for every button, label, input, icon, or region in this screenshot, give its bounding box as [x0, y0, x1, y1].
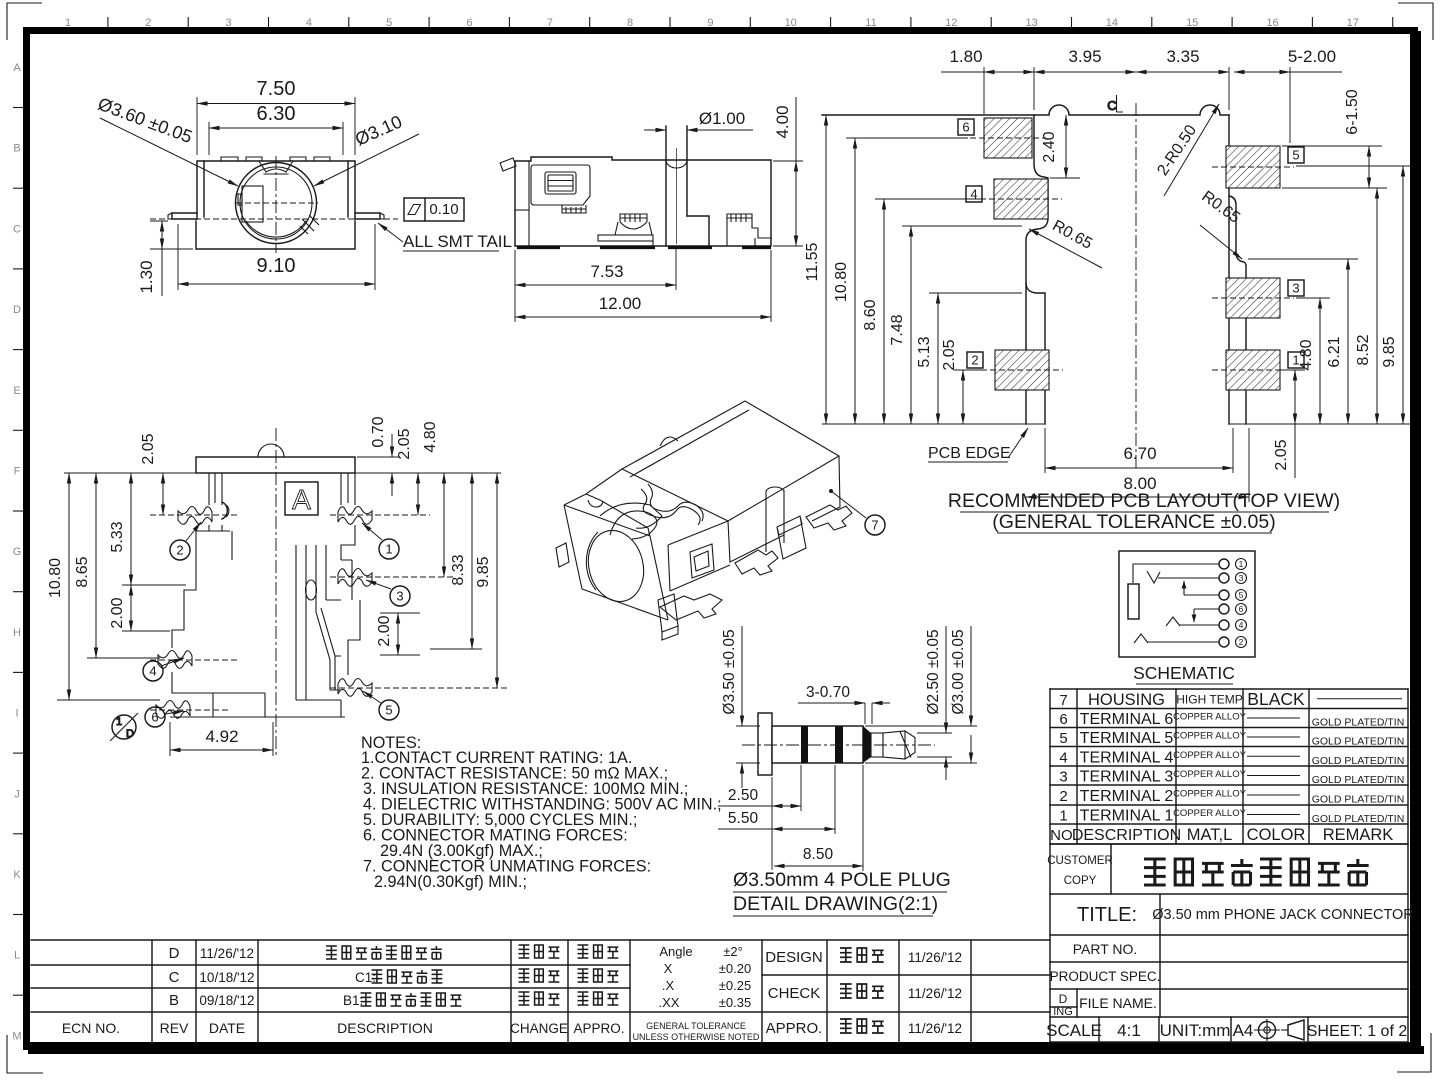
svg-text:5: 5 [1059, 730, 1067, 747]
dim 2.05 sec left [140, 433, 163, 515]
svg-text:5: 5 [385, 703, 392, 718]
section left profile [170, 473, 282, 717]
dim dia 3.50 plug [721, 626, 760, 788]
svg-text:2.94N(0.30Kgf) MIN.;: 2.94N(0.30Kgf) MIN.; [374, 873, 527, 891]
callout 6 [145, 707, 184, 727]
front view inner details [238, 186, 319, 234]
pcb layout top edge [822, 105, 1229, 115]
svg-text:11/26/'12: 11/26/'12 [908, 1021, 962, 1036]
svg-text:A: A [13, 62, 21, 74]
dim 6.30 [209, 103, 343, 155]
dim 4.80 sec [422, 421, 444, 577]
svg-text:1.80: 1.80 [949, 47, 982, 66]
plug flange [758, 713, 863, 775]
svg-text:8.65: 8.65 [74, 556, 91, 587]
svg-text:1.30: 1.30 [137, 260, 156, 293]
ruler ticks left [13, 108, 23, 996]
svg-text:X: X [664, 961, 673, 976]
dim 2.40 [1041, 115, 1080, 178]
svg-text:SHEET: 1 of 2: SHEET: 1 of 2 [1307, 1023, 1408, 1040]
dim 8.65 sec [74, 473, 160, 658]
dim 6.70 [1045, 428, 1233, 473]
svg-text:9.85: 9.85 [1381, 336, 1398, 367]
svg-text:09/18/'12: 09/18/'12 [199, 993, 254, 1008]
svg-text:DETAIL DRAWING(2:1): DETAIL DRAWING(2:1) [733, 893, 938, 915]
svg-text:±0.25: ±0.25 [719, 978, 751, 993]
plug caption [733, 869, 951, 916]
plug tip [871, 731, 915, 759]
parts table grid [1050, 689, 1408, 844]
svg-text:6.70: 6.70 [1123, 444, 1156, 463]
svg-text:ECN NO.: ECN NO. [62, 1020, 120, 1036]
svg-text:SCALE: SCALE [1046, 1021, 1102, 1040]
dim 8.33 sec [430, 473, 482, 649]
svg-text:8.33: 8.33 [450, 554, 467, 585]
svg-text:5.50: 5.50 [728, 810, 759, 827]
section ref line [64, 472, 196, 474]
svg-text:6: 6 [1239, 604, 1244, 614]
svg-text:DESCRIPTION: DESCRIPTION [337, 1020, 433, 1036]
svg-text:±0.20: ±0.20 [719, 961, 751, 976]
svg-text:Ø1.00: Ø1.00 [699, 109, 745, 128]
svg-text:3.95: 3.95 [1068, 47, 1101, 66]
svg-text:D: D [126, 728, 134, 740]
front view circles [236, 163, 317, 244]
label ALL SMT TAIL [378, 223, 512, 251]
3d view top face [622, 401, 839, 525]
dim 2.05 sec [396, 428, 418, 515]
svg-text:B: B [169, 992, 179, 1009]
svg-text:Ø2.50 ±0.05: Ø2.50 ±0.05 [925, 629, 942, 714]
svg-text:A: A [292, 484, 311, 515]
svg-text:COLOR: COLOR [1247, 826, 1306, 844]
dim 4.92 [170, 722, 273, 756]
svg-text:9.85: 9.85 [475, 556, 492, 587]
dim 2.00 sec right [376, 613, 420, 655]
pad 1 [1212, 350, 1304, 390]
section mark 1/D [110, 713, 138, 741]
svg-text:7: 7 [1059, 692, 1067, 709]
svg-text:3: 3 [1059, 769, 1067, 786]
svg-text:1: 1 [1239, 559, 1244, 569]
side view body [500, 157, 771, 246]
callout 7 [829, 489, 885, 535]
svg-text:COPPER ALLOY: COPPER ALLOY [1173, 731, 1247, 742]
terminal 6 spring [156, 701, 190, 719]
svg-text:C: C [13, 223, 21, 235]
terminal 5 spring [338, 679, 372, 697]
tolerance block [633, 944, 760, 1042]
callout 2 [170, 522, 201, 560]
svg-text:GOLD PLATED/TIN: GOLD PLATED/TIN [1312, 774, 1405, 786]
pad 4 [966, 179, 1062, 219]
svg-text:PCB EDGE: PCB EDGE [928, 445, 1011, 462]
svg-text:C: C [1107, 98, 1116, 113]
svg-text:B1:: B1: [343, 993, 363, 1008]
svg-text:2.00: 2.00 [109, 597, 126, 628]
dim dia 3.00 plug [865, 626, 977, 763]
dim 9.85 sec [475, 473, 497, 688]
leader dia 3.10 [314, 111, 419, 186]
ruler numbers top [65, 17, 1359, 29]
svg-text:3-0.70: 3-0.70 [806, 684, 850, 701]
svg-text:10.80: 10.80 [833, 262, 850, 302]
svg-text:6: 6 [151, 710, 158, 725]
svg-text:ING: ING [1053, 1006, 1073, 1018]
dim 7.48 [889, 226, 1022, 424]
dim 0.70 sec [357, 416, 400, 496]
svg-text:K: K [13, 869, 21, 881]
side view right terminal [727, 214, 772, 246]
svg-text:.XX: .XX [659, 995, 680, 1010]
svg-text:COPPER ALLOY: COPPER ALLOY [1173, 808, 1247, 819]
svg-text:7: 7 [871, 518, 878, 533]
svg-text:COPY: COPY [1064, 875, 1097, 887]
dim 12.00 [515, 250, 771, 322]
svg-text:Ø3.00 ±0.05: Ø3.00 ±0.05 [950, 629, 967, 714]
leader 2-R0.50 [1154, 104, 1219, 196]
section view top plate [196, 444, 355, 473]
dim 2.50 plug [718, 765, 801, 870]
svg-text:2: 2 [176, 543, 183, 558]
svg-text:D: D [1059, 992, 1068, 1006]
revision rows [62, 945, 625, 1036]
svg-text:G: G [13, 546, 22, 558]
svg-text:REMARK: REMARK [1323, 826, 1394, 844]
svg-text:6.21: 6.21 [1326, 336, 1343, 367]
svg-text:6: 6 [1059, 711, 1067, 728]
leader R0.65 left [1029, 217, 1102, 268]
svg-text:DESCRIPTION: DESCRIPTION [1072, 827, 1181, 844]
dim 8.60 [862, 199, 980, 424]
svg-text:M: M [12, 1030, 21, 1042]
pcb centerline [1135, 103, 1137, 470]
svg-text:H: H [13, 627, 21, 639]
svg-text:F: F [14, 466, 21, 478]
svg-text:FILE NAME.: FILE NAME. [1079, 995, 1157, 1011]
svg-text:3: 3 [396, 589, 403, 604]
svg-text:±0.35: ±0.35 [719, 995, 751, 1010]
svg-text:8.50: 8.50 [803, 846, 834, 863]
terminal 4 spring [158, 651, 192, 669]
ruler letters left [12, 62, 21, 1042]
svg-text:L: L [14, 950, 20, 962]
front view body outline [168, 157, 384, 249]
svg-text:11/26/'12: 11/26/'12 [200, 946, 254, 961]
svg-text:7.48: 7.48 [889, 314, 906, 345]
svg-text:5-2.00: 5-2.00 [1288, 47, 1336, 66]
section centerline [275, 428, 277, 758]
dim 5.33 sec [109, 473, 186, 585]
svg-text:6.30: 6.30 [257, 103, 296, 125]
svg-text:TITLE:: TITLE: [1077, 904, 1137, 926]
svg-text:A4: A4 [1233, 1021, 1254, 1040]
svg-text:6-1.50: 6-1.50 [1344, 89, 1361, 134]
svg-text:4: 4 [1239, 620, 1244, 630]
dim 9.10 [178, 224, 375, 290]
svg-text:4.80: 4.80 [422, 421, 439, 452]
plug centerline [742, 744, 935, 746]
side view mid terminal [598, 214, 653, 246]
svg-text:GOLD PLATED/TIN: GOLD PLATED/TIN [1312, 736, 1405, 748]
dim 8.50 plug [774, 765, 863, 871]
svg-text:11.55: 11.55 [804, 242, 821, 281]
svg-text:3: 3 [1292, 281, 1299, 296]
approval block [765, 948, 962, 1037]
dim 3-0.70 [798, 684, 890, 724]
pad 6 [958, 118, 1046, 158]
3d view right face [728, 456, 840, 562]
svg-text:2: 2 [1059, 788, 1067, 805]
pad 5 [1212, 146, 1304, 188]
svg-text:0.10: 0.10 [429, 201, 458, 218]
svg-text:UNLESS OTHERWISE NOTED: UNLESS OTHERWISE NOTED [633, 1032, 760, 1042]
schematic wires [1133, 564, 1219, 643]
svg-text:2.05: 2.05 [140, 433, 157, 464]
svg-text:B: B [13, 143, 20, 155]
svg-text:2: 2 [1239, 637, 1244, 647]
revision table grid [31, 940, 1050, 1042]
callout 4 [143, 658, 184, 681]
dim 5.50 plug [718, 765, 835, 834]
svg-text:HIGH TEMP: HIGH TEMP [1176, 692, 1242, 706]
callout 1 [362, 523, 399, 559]
svg-text:11/26/'12: 11/26/'12 [908, 950, 962, 965]
front view centerlines [236, 202, 318, 204]
svg-text:5.33: 5.33 [109, 521, 126, 552]
svg-text:CUSTOMER: CUSTOMER [1047, 855, 1113, 867]
svg-text:TERMINAL 2: TERMINAL 2 [1080, 788, 1174, 805]
svg-text:C: C [169, 969, 180, 986]
svg-text:7.50: 7.50 [257, 78, 296, 100]
svg-text:(GENERAL TOLERANCE ±0.05): (GENERAL TOLERANCE ±0.05) [992, 511, 1275, 533]
pad 3 [1212, 278, 1304, 318]
svg-text:0.70: 0.70 [370, 416, 387, 447]
svg-text:BLACK: BLACK [1247, 689, 1305, 709]
svg-text:10.80: 10.80 [47, 558, 64, 598]
dim dia 1.00 [644, 109, 753, 130]
dim 2.05 right [1273, 370, 1305, 478]
svg-text:ALL SMT TAIL: ALL SMT TAIL [403, 232, 512, 251]
svg-text:E: E [13, 385, 20, 397]
svg-text:TERMINAL 1: TERMINAL 1 [1080, 808, 1174, 825]
svg-text:Angle: Angle [659, 944, 692, 959]
pcb layout left outline [1026, 115, 1048, 424]
svg-text:7.53: 7.53 [590, 262, 623, 281]
pad 2 [967, 350, 1063, 390]
dim 10.80 [833, 138, 968, 424]
pcb bottom edge lines [822, 423, 1045, 425]
centerline symbol [1107, 95, 1123, 113]
dim 1.30 [137, 221, 193, 296]
projection symbol [1254, 1019, 1304, 1041]
dim dia 2.50 plug [917, 626, 952, 780]
svg-text:Ø3.50 ±0.05: Ø3.50 ±0.05 [721, 629, 738, 714]
title block grid [1050, 844, 1408, 1042]
svg-text:GOLD PLATED/TIN: GOLD PLATED/TIN [1312, 813, 1405, 825]
callout 3 [366, 580, 410, 606]
dim 11.55 [804, 115, 826, 424]
terminal centerlines [150, 515, 508, 710]
svg-text:PRODUCT SPEC.: PRODUCT SPEC. [1050, 969, 1161, 984]
dim 6.21 [1248, 259, 1358, 424]
flatness feature control frame [404, 198, 464, 221]
dim 7.50 [197, 78, 355, 155]
svg-text:3: 3 [1239, 573, 1244, 583]
svg-text:4.92: 4.92 [205, 727, 238, 746]
svg-text:MAT,L: MAT,L [1187, 826, 1233, 844]
section right profile [282, 473, 360, 717]
leader R0.65 right [1198, 188, 1243, 259]
schematic pin numbers [1236, 559, 1247, 648]
svg-text:RECOMMENDED PCB LAYOUT(TOP VIE: RECOMMENDED PCB LAYOUT(TOP VIEW) [948, 490, 1340, 512]
svg-text:±2°: ±2° [723, 944, 743, 959]
title block texts [1046, 855, 1414, 1040]
svg-text:4.80: 4.80 [1298, 339, 1315, 370]
dim 8.52 [1284, 188, 1387, 424]
svg-text:COPPER ALLOY: COPPER ALLOY [1173, 769, 1247, 780]
svg-text:TERMINAL 3: TERMINAL 3 [1080, 769, 1174, 786]
dim 4.00 [773, 97, 803, 246]
side view smt feet [517, 246, 771, 249]
svg-text:3.35: 3.35 [1166, 47, 1199, 66]
dim 10.80 sec [47, 473, 160, 700]
callout 5 [363, 691, 399, 720]
svg-text:5: 5 [1292, 148, 1299, 163]
dim 7.53 [515, 248, 676, 322]
schematic box [1119, 551, 1255, 657]
svg-text:CHECK: CHECK [768, 985, 821, 1002]
svg-text:1: 1 [1059, 808, 1067, 825]
svg-text:CHANGE: CHANGE [510, 1021, 568, 1036]
svg-text:COPPER ALLOY: COPPER ALLOY [1173, 750, 1247, 761]
svg-text:TERMINAL 5: TERMINAL 5 [1080, 730, 1174, 747]
svg-text:.X: .X [662, 978, 675, 993]
3d view flange [556, 469, 678, 640]
dim 2.05 left [941, 339, 981, 424]
company name [1144, 859, 1369, 885]
dim 5.13 [916, 293, 1022, 424]
3d view leads [660, 505, 852, 620]
notes text [361, 734, 722, 891]
svg-text:APPRO.: APPRO. [573, 1021, 624, 1036]
schematic sleeve [1128, 584, 1139, 619]
svg-text:Ø3.50mm 4 POLE PLUG: Ø3.50mm 4 POLE PLUG [733, 869, 951, 891]
3d view front-mid face [668, 521, 730, 591]
svg-text:J: J [14, 788, 20, 800]
svg-text:GOLD PLATED/TIN: GOLD PLATED/TIN [1312, 717, 1405, 729]
dim 9.85 [1296, 166, 1410, 424]
svg-text:12.00: 12.00 [599, 294, 642, 313]
svg-text:TERMINAL 4: TERMINAL 4 [1080, 749, 1174, 766]
schematic contacts [1219, 559, 1229, 647]
svg-text:REV: REV [160, 1020, 189, 1036]
label PCB EDGE [928, 428, 1028, 462]
svg-text:4: 4 [1059, 749, 1067, 766]
svg-text:8.60: 8.60 [862, 299, 879, 330]
svg-text:2.40: 2.40 [1041, 131, 1058, 162]
svg-text:2: 2 [971, 353, 978, 368]
svg-text:PART NO.: PART NO. [1073, 941, 1138, 957]
parts table rows [1050, 689, 1404, 844]
svg-text:DATE: DATE [209, 1020, 245, 1036]
svg-text:2.05: 2.05 [941, 339, 958, 370]
svg-text:GOLD PLATED/TIN: GOLD PLATED/TIN [1312, 755, 1405, 767]
svg-text:D: D [169, 945, 180, 962]
svg-text:D: D [13, 304, 21, 316]
ruler ticks top [108, 17, 1393, 27]
svg-text:TERMINAL 6: TERMINAL 6 [1080, 711, 1174, 728]
dim 6-1.50 [1282, 89, 1382, 188]
svg-text:1: 1 [385, 542, 392, 557]
terminal 1 spring [338, 507, 372, 525]
plug rings [801, 726, 871, 763]
svg-text:5: 5 [1239, 590, 1244, 600]
leader dia 3.60 [95, 94, 238, 186]
svg-text:11/26/'12: 11/26/'12 [908, 986, 962, 1001]
dim 2.00 sec left [109, 585, 170, 631]
datum A box [285, 482, 318, 515]
svg-text:GOLD PLATED/TIN: GOLD PLATED/TIN [1312, 794, 1405, 806]
svg-text:UNIT:mm: UNIT:mm [1160, 1021, 1231, 1040]
svg-text:1: 1 [116, 716, 122, 728]
dim 8.00 [1026, 428, 1249, 502]
svg-text:9.10: 9.10 [257, 255, 296, 277]
svg-text:COPPER ALLOY: COPPER ALLOY [1173, 712, 1247, 723]
svg-text:Ø3.50 mm PHONE JACK CONNECTOR: Ø3.50 mm PHONE JACK CONNECTOR [1152, 907, 1414, 923]
svg-text:5.13: 5.13 [916, 336, 933, 367]
svg-text:DESIGN: DESIGN [765, 949, 823, 966]
terminal 3 spring [338, 569, 372, 587]
pcb layout right outline [1228, 115, 1230, 424]
side view pin tube [666, 126, 709, 246]
svg-text:APPRO.: APPRO. [766, 1020, 823, 1037]
svg-text:I: I [15, 708, 18, 720]
terminal 2 spring [178, 507, 212, 525]
pcb top dims [941, 47, 1342, 143]
pcb captions [948, 490, 1340, 533]
dim 4.80 [1296, 298, 1330, 424]
svg-text:HOUSING: HOUSING [1088, 691, 1165, 709]
svg-text:4.00: 4.00 [773, 105, 792, 138]
schematic title [1133, 663, 1235, 684]
svg-text:4: 4 [149, 664, 156, 679]
svg-text:GENERAL TOLERANCE: GENERAL TOLERANCE [646, 1021, 746, 1031]
svg-text:2.00: 2.00 [376, 615, 393, 646]
svg-text:6: 6 [962, 120, 969, 135]
svg-text:2.50: 2.50 [728, 787, 759, 804]
svg-text:4:1: 4:1 [1117, 1021, 1141, 1040]
svg-text:SCHEMATIC: SCHEMATIC [1133, 663, 1235, 683]
svg-text:8.52: 8.52 [1355, 334, 1372, 365]
svg-text:COPPER ALLOY: COPPER ALLOY [1173, 789, 1247, 800]
side view switch block [531, 165, 590, 213]
svg-text:2.05: 2.05 [1273, 439, 1290, 470]
svg-text:10/18/'12: 10/18/'12 [199, 970, 254, 985]
svg-text:2.05: 2.05 [396, 428, 413, 459]
